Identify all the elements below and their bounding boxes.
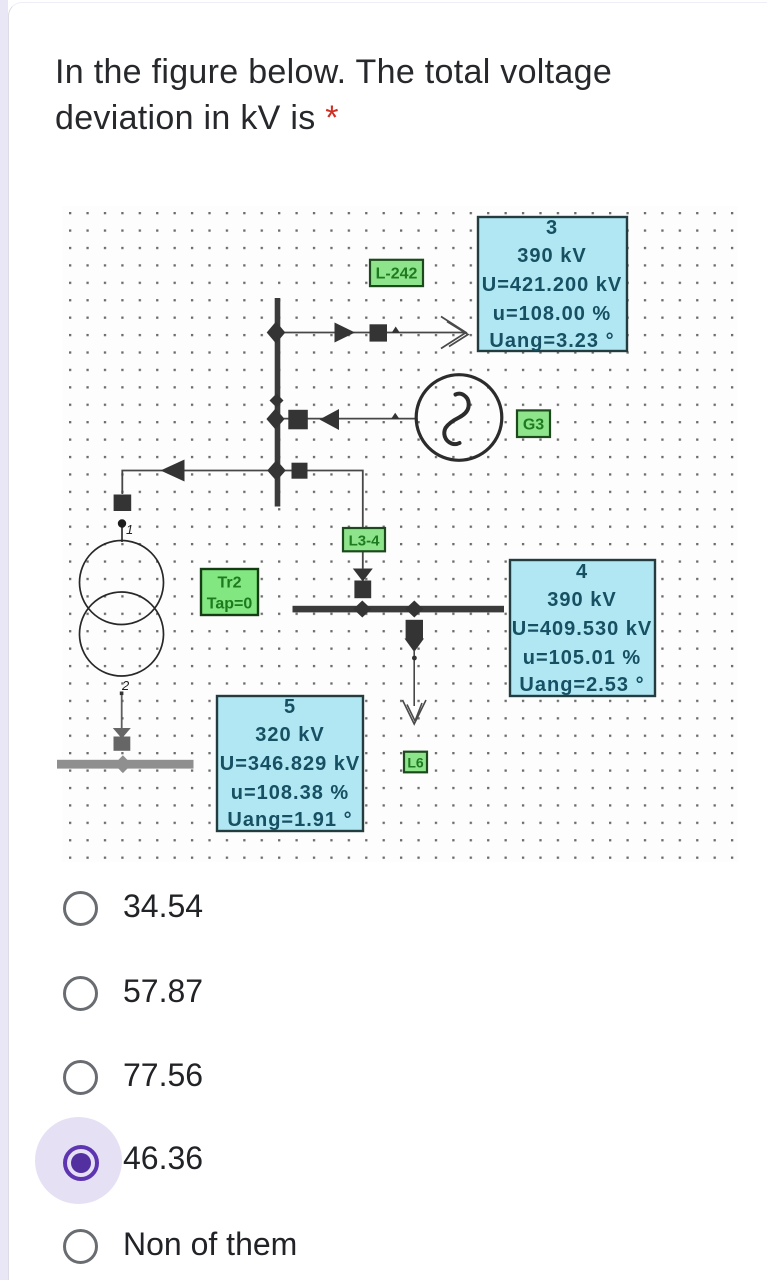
svg-text:u=108.00 %: u=108.00 % xyxy=(493,303,611,325)
svg-text:320 kV: 320 kV xyxy=(255,724,324,746)
open V arrowhead of load L6 xyxy=(403,700,427,724)
arrow right (power flow) on L-242 xyxy=(335,323,356,343)
svg-text:u=105.01 %: u=105.01 % xyxy=(523,647,641,669)
small arrow mark on generator line xyxy=(391,413,400,419)
wire transformer to bus 5 xyxy=(121,695,123,729)
bus 4 horizontal xyxy=(293,606,505,613)
svg-text:L3-4: L3-4 xyxy=(349,533,381,550)
svg-text:1: 1 xyxy=(126,522,133,537)
question title xyxy=(55,49,655,141)
node 5 result box xyxy=(217,696,363,831)
svg-text:G3: G3 xyxy=(523,417,544,434)
svg-text:U=409.530 kV: U=409.530 kV xyxy=(512,618,652,640)
node diamond bus4 left xyxy=(353,601,371,618)
svg-text:2: 2 xyxy=(121,678,130,693)
arrow left (towards bus) on generator line xyxy=(320,409,340,430)
label L-242 xyxy=(370,260,423,286)
transformer Tr2 symbol xyxy=(80,541,164,625)
wire stub above transformer xyxy=(121,521,123,542)
label Tr2 / Tap=0 xyxy=(201,569,258,615)
svg-text:U=346.829 kV: U=346.829 kV xyxy=(220,753,360,775)
branch L3-4: arrow down + breaker into bus 4 xyxy=(353,569,373,582)
node dot above transformer xyxy=(118,519,126,527)
small node on bus above generator line xyxy=(270,394,284,408)
svg-text:Uang=1.91 °: Uang=1.91 ° xyxy=(227,809,352,831)
left lavender strip xyxy=(0,0,8,1280)
node 4 result box xyxy=(510,560,655,696)
small arrow mark on L-242 xyxy=(392,327,401,334)
svg-text:Uang=2.53 °: Uang=2.53 ° xyxy=(519,674,644,696)
svg-text:390 kV: 390 kV xyxy=(517,245,586,267)
answer option Non of them xyxy=(63,1229,98,1264)
node junction diamond (generator line) xyxy=(266,409,284,430)
breaker square on generator line xyxy=(288,410,308,430)
load L6 branch: square + arrow down xyxy=(406,620,423,639)
wire bus to transformer / L3-4 branch xyxy=(122,471,362,529)
svg-text:5: 5 xyxy=(284,696,296,718)
breaker square on transformer feeder xyxy=(114,495,132,512)
svg-text:L-242: L-242 xyxy=(376,266,418,283)
svg-text:u=108.38 %: u=108.38 % xyxy=(231,782,349,804)
svg-text:U=421.200 kV: U=421.200 kV xyxy=(482,274,622,296)
answer option 46.36 (selected) xyxy=(35,1117,122,1204)
node diamond on bus 5 xyxy=(114,755,132,773)
label G3 xyxy=(517,410,550,437)
svg-text:Uang=3.23 °: Uang=3.23 ° xyxy=(489,330,614,352)
node 3 result box xyxy=(478,217,627,352)
svg-text:3: 3 xyxy=(546,217,558,239)
bus 2 vertical xyxy=(275,298,281,507)
breaker (triangle+square) above bus 5 xyxy=(113,728,131,739)
breaker square right of bus on line 3 xyxy=(292,463,308,479)
answer option 77.56 xyxy=(63,1060,98,1095)
node junction diamond on bus (line L-242) xyxy=(267,322,286,344)
bus 5 (gray) xyxy=(57,760,194,769)
tick below transformer xyxy=(120,692,124,696)
svg-text:Tr2: Tr2 xyxy=(217,575,241,592)
answer option 57.87 xyxy=(63,976,98,1011)
node diamond bus4 (load L6) xyxy=(405,601,423,618)
label L3-4 xyxy=(343,528,385,551)
arrow left on line 3 xyxy=(161,460,185,482)
wire line L-242 to node 3 xyxy=(280,332,465,334)
generator G3 symbol xyxy=(416,375,502,461)
wire generator G3 to bus xyxy=(277,418,416,420)
open chevron arrowhead into box 3 xyxy=(441,317,468,349)
label L6 xyxy=(404,752,427,773)
svg-text:4: 4 xyxy=(576,561,588,583)
svg-text:390 kV: 390 kV xyxy=(547,589,616,611)
node junction diamond (line 3) xyxy=(267,460,286,481)
svg-text:Tap=0: Tap=0 xyxy=(207,596,253,613)
answer option 34.54 xyxy=(63,891,98,926)
svg-text:L6: L6 xyxy=(407,755,424,771)
dotted grid background xyxy=(62,206,738,862)
breaker square on L-242 xyxy=(370,324,388,341)
